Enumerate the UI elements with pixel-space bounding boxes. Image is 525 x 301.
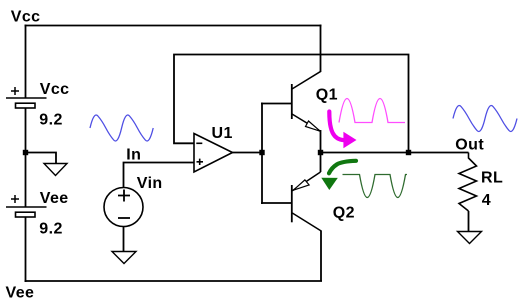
ground GND3	[458, 232, 482, 244]
arrow Q1 current magenta	[329, 112, 344, 141]
svg-text:U1: U1	[212, 125, 233, 142]
transistor Q2 base bar	[291, 185, 293, 222]
transistor Q2 collector diagonal	[292, 213, 321, 231]
ground GND2	[112, 252, 136, 264]
battery V2 plus mark	[11, 195, 19, 203]
wire In to op-amp	[124, 163, 195, 189]
op-amp U1 minus input mark	[196, 142, 202, 144]
battery V2 Vee top plate	[6, 206, 47, 208]
battery V2 Vee bottom plate	[16, 212, 36, 217]
resistor RL zigzag	[459, 153, 477, 212]
ground GND1	[44, 164, 67, 176]
wire Q2 base	[261, 202, 292, 204]
wire junction to battery V2	[25, 154, 27, 207]
wire op-amp output	[233, 152, 261, 154]
battery V1 Vcc top plate	[6, 97, 47, 99]
svg-text:Q2: Q2	[333, 205, 355, 222]
source VG1 plus	[118, 190, 130, 202]
svg-text:9.2: 9.2	[39, 112, 62, 129]
source VG1 minus	[118, 217, 130, 219]
wire VG1 to ground	[123, 227, 125, 252]
wire base vertical	[261, 103, 263, 205]
svg-text:Vee: Vee	[40, 190, 69, 207]
transistor Q2 emitter diagonal	[292, 172, 320, 191]
source VG1 circle	[104, 188, 143, 227]
svg-text:Vin: Vin	[137, 175, 163, 192]
node base drive junction	[259, 150, 264, 155]
wire Vee bottom rail	[25, 280, 323, 282]
node supply junction	[23, 150, 28, 155]
waveform output sine blue	[453, 106, 517, 132]
transistor Q1 collector diagonal	[292, 71, 321, 89]
waveform Q1 positive half-cycles magenta	[339, 99, 405, 123]
svg-text:In: In	[126, 146, 141, 163]
waveform Q2 negative half-cycles green	[343, 175, 408, 198]
arrow Q2 current green	[329, 161, 356, 174]
transistor Q1 emitter arrow	[306, 121, 321, 131]
wire Q2 collector to Vee rail	[320, 231, 322, 282]
node feedback junction	[406, 150, 411, 155]
svg-text:Vcc: Vcc	[40, 81, 70, 98]
transistor Q1 emitter diagonal	[292, 114, 321, 131]
wire Q2 emitter vertical	[320, 153, 322, 173]
wire feedback loop	[174, 55, 409, 153]
wire left supply vertical upper	[25, 25, 27, 99]
node emitter junction	[318, 150, 323, 155]
transistor Q1 base bar	[291, 84, 293, 119]
svg-text:Out: Out	[455, 136, 484, 153]
battery V1 Vcc bottom plate	[16, 103, 36, 108]
transistor Q2 emitter arrow	[293, 180, 309, 190]
wire Q1 collector to Vcc rail	[320, 25, 322, 73]
op-amp U1 body	[194, 134, 233, 173]
wire output rail	[321, 152, 469, 154]
svg-text:4: 4	[482, 192, 491, 209]
wire Q1 emitter vertical	[320, 130, 322, 153]
waveform input sine blue	[90, 115, 153, 141]
wire Q1 base	[261, 103, 292, 105]
op-amp U1 plus input mark	[197, 159, 204, 165]
wire RL to ground	[468, 211, 470, 232]
svg-text:Vcc: Vcc	[11, 8, 41, 25]
svg-text:Vee: Vee	[6, 284, 35, 301]
battery V1 plus mark	[11, 87, 19, 95]
wire battery V1 to junction	[25, 108, 27, 154]
svg-text:RL: RL	[481, 170, 503, 187]
wire left supply vertical lower	[25, 217, 27, 282]
wire Vcc top rail	[25, 25, 322, 27]
svg-text:9.2: 9.2	[39, 221, 62, 238]
svg-text:Q1: Q1	[316, 86, 338, 103]
wire junction to ground	[26, 153, 56, 164]
